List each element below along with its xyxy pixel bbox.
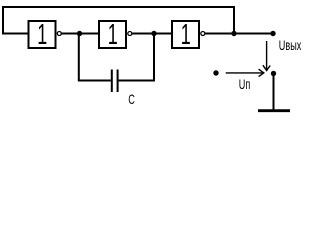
capacitor C1 left plate: [111, 70, 113, 93]
wire U1 output to U2 input: [61, 33, 99, 35]
node ground junction dot: [271, 71, 276, 76]
wire ground node down: [273, 74, 275, 110]
wire feedback loop from node A to input of inverter U1: [3, 7, 234, 34]
svg-text:C: C: [128, 91, 135, 108]
svg-text:Uп: Uп: [239, 76, 251, 93]
svg-text:Uвых: Uвых: [279, 37, 302, 54]
ground bar: [258, 109, 290, 112]
wire node B down to capacitor: [79, 34, 111, 81]
svg-text:1: 1: [108, 19, 118, 51]
inversion bubble U2 output: [128, 32, 132, 36]
node D junction dot: [151, 31, 156, 36]
inversion bubble U3 output: [201, 32, 205, 36]
capacitor C1 right plate: [117, 70, 119, 93]
arrow Uп (supply voltage, pointing right): [226, 69, 264, 76]
node Uout junction dot: [270, 31, 275, 36]
node supply terminal dot: [213, 70, 218, 75]
svg-text:1: 1: [37, 19, 47, 51]
arrow Uвых (output voltage, pointing down): [263, 41, 270, 71]
inversion bubble U1 output: [57, 32, 61, 36]
wire U2 output to U3 input: [132, 33, 172, 35]
inverter U3: [172, 21, 199, 48]
svg-text:1: 1: [181, 19, 191, 51]
node B junction dot: [77, 31, 82, 36]
wire capacitor to node D: [119, 34, 154, 81]
wire U3 output to output node: [205, 33, 274, 35]
inverter U1: [29, 21, 56, 48]
inverter U2: [99, 21, 126, 48]
node A junction dot (feedback tap): [231, 31, 236, 36]
